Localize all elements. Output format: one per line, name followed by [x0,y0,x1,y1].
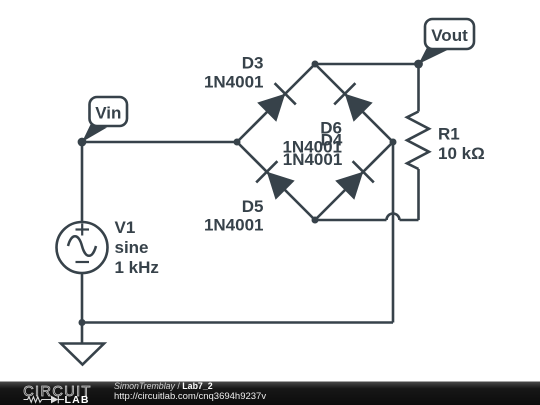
diode D5 [256,161,295,200]
wire Vin node to bridge left node [82,141,237,144]
svg-text:http://circuitlab.com/cnq3694h: http://circuitlab.com/cnq3694h9237v [114,391,266,402]
footer bar [0,382,540,405]
node bridge left [234,139,241,146]
svg-text:Vin: Vin [95,104,121,123]
wire Vout node down to R1 top [417,64,420,112]
wire ground lead [81,323,84,344]
node bridge bottom [312,217,319,224]
wire bridge edge top-right [315,64,393,142]
wire hop left side to bridge bottom node [315,219,387,222]
diode D6 [334,83,373,122]
wire V1 bottom to ground rail junction [81,273,84,323]
wire R1 bottom down to corner [417,169,420,220]
wire hop over vertical wire [387,214,400,221]
svg-text:D5: D5 [242,197,264,216]
svg-text:SimonTremblay / Lab7_2: SimonTremblay / Lab7_2 [114,381,213,391]
footer CircuitLab logo [23,384,92,405]
svg-text:Vout: Vout [431,26,468,45]
svg-text:1N4001: 1N4001 [204,73,264,92]
wire bridge edge bottom-left [237,142,315,220]
wire bridge right node down to bottom rail [392,142,395,323]
resistor R1 [407,112,429,170]
node Vin junction [78,138,87,147]
wire corner to hop right side [400,219,419,222]
svg-text:10 kΩ: 10 kΩ [438,144,485,163]
node ground rail junction [79,319,86,326]
svg-text:1N4001: 1N4001 [283,150,343,169]
wire Vin node down to V1 top [81,142,84,222]
svg-text:D4: D4 [321,130,343,149]
wire bridge edge left-top [237,64,315,142]
node bridge top [312,61,319,68]
svg-text:V1: V1 [115,218,136,237]
flag Vin [82,97,127,142]
node Vout junction [414,60,423,69]
svg-text:1 kHz: 1 kHz [115,258,159,277]
wire bridge top node to Vout node [315,63,419,66]
ground [61,344,104,365]
svg-text:R1: R1 [438,125,460,144]
svg-text:1N4001: 1N4001 [204,216,264,235]
svg-text:D3: D3 [242,54,264,73]
node bridge right [390,139,397,146]
voltage source V1 [57,222,108,273]
wire bottom rail [82,321,393,324]
flag Vout [419,19,475,64]
diode D3 [257,83,296,122]
svg-text:sine: sine [115,238,149,257]
wire bridge edge right-bottom [315,142,393,220]
svg-text:LAB: LAB [65,394,90,405]
diode D4 [335,161,374,200]
